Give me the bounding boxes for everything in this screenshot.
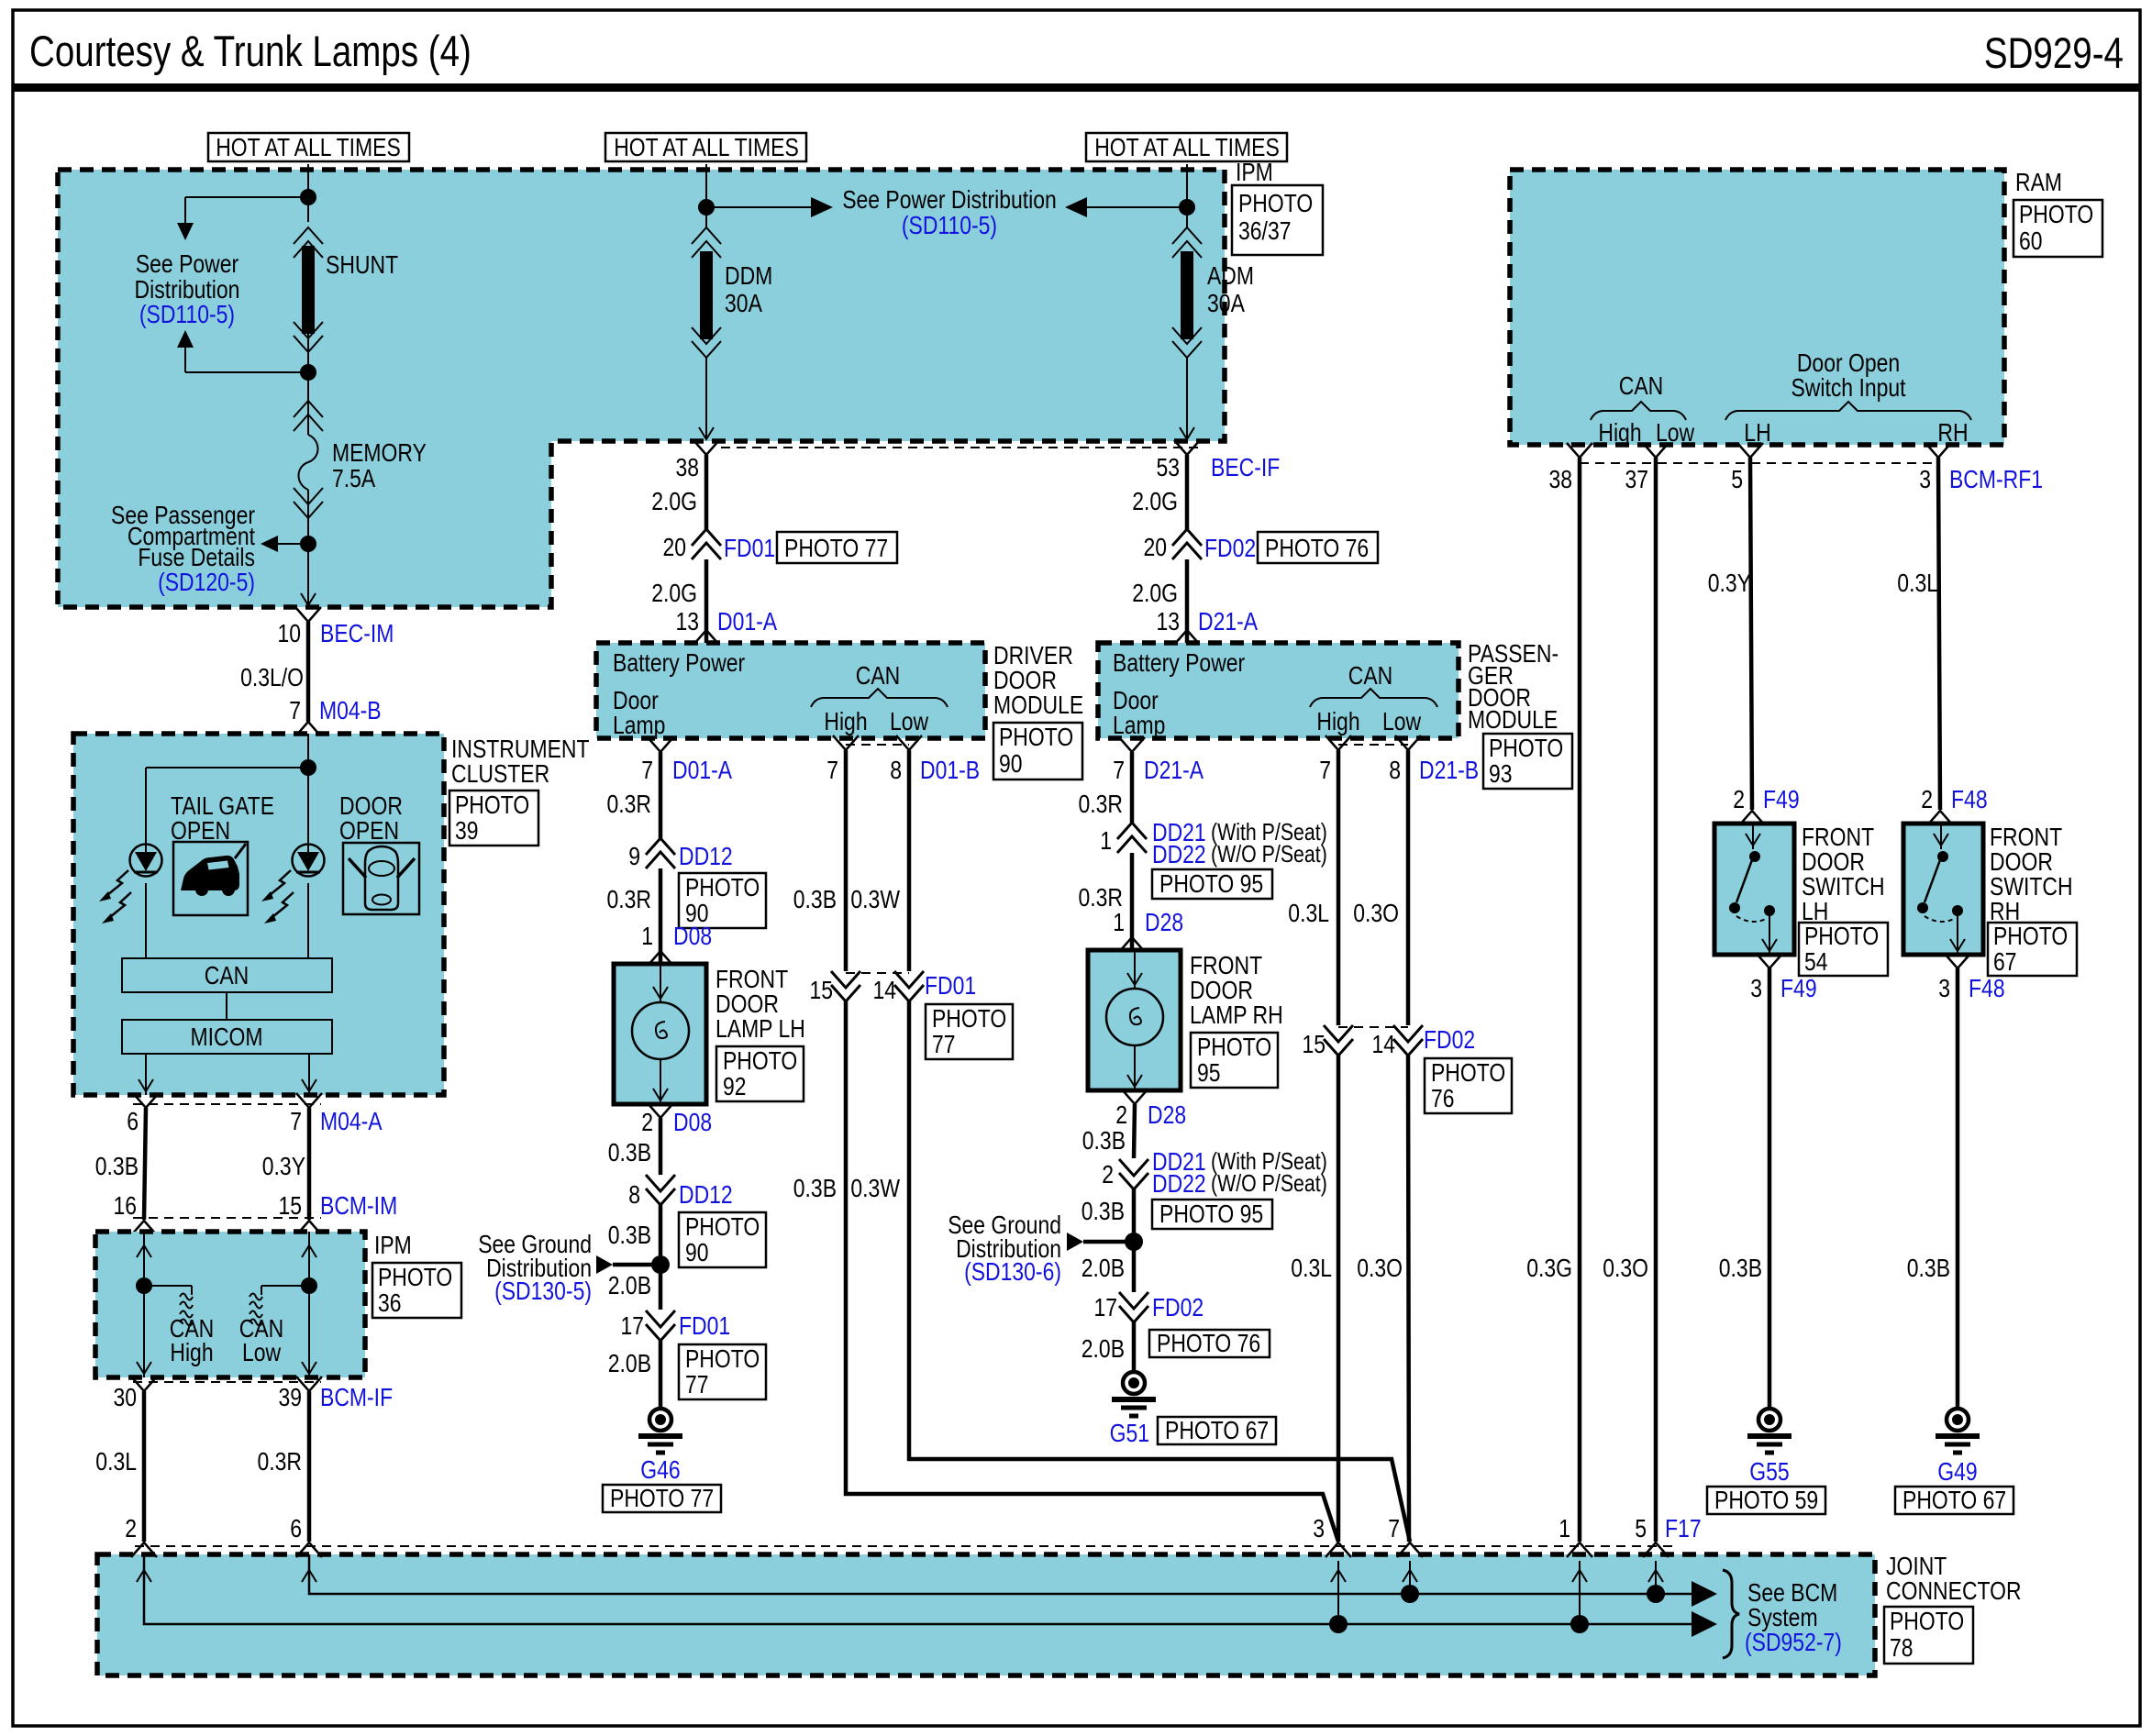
wire CAN High 0.3B down and right to joint pin 3	[793, 1001, 1338, 1542]
label PHOTO 67 box (G51)	[1158, 1416, 1276, 1444]
svg-text:17: 17	[621, 1311, 645, 1340]
svg-text:95: 95	[1197, 1058, 1221, 1087]
wire 0.3B to DD21 pin 2	[1134, 1104, 1135, 1158]
svg-text:16: 16	[114, 1191, 138, 1220]
connector F49 pin 2	[1733, 785, 1799, 825]
svg-text:PHOTO: PHOTO	[455, 791, 529, 819]
svg-text:D21-B: D21-B	[1419, 756, 1479, 784]
svg-text:D28: D28	[1145, 908, 1183, 936]
connector D21-A pin 13	[1157, 607, 1259, 645]
label RAM / PHOTO 60	[2013, 168, 2102, 257]
svg-text:PHOTO: PHOTO	[999, 723, 1073, 751]
svg-text:90: 90	[685, 1238, 709, 1266]
connector DD12 pin 9	[628, 838, 733, 870]
joint pin 3 chevron	[1326, 1542, 1351, 1557]
svg-text:PHOTO 67: PHOTO 67	[1902, 1486, 2006, 1514]
wire 2.0G FD02 to D21-A	[1185, 559, 1190, 643]
svg-text:PHOTO: PHOTO	[1431, 1058, 1505, 1087]
wire 0.3B LH switch to G55	[1768, 968, 1772, 1409]
label IPM PHOTO 36/37	[1232, 158, 1323, 255]
svg-text:BCM-RF1: BCM-RF1	[1949, 465, 2043, 493]
wire: branch to See Passenger Compartment Fuse Details (left arrow)	[261, 536, 308, 552]
svg-text:High: High	[170, 1338, 213, 1366]
svg-text:PHOTO 77: PHOTO 77	[784, 534, 888, 562]
wire CAN Low 0.3W down and right to joint pin 7	[850, 1001, 1410, 1542]
svg-text:(SD952-7): (SD952-7)	[1745, 1628, 1842, 1656]
svg-text:PHOTO: PHOTO	[685, 1212, 760, 1241]
svg-text:14: 14	[1372, 1030, 1396, 1058]
fuse SHUNT	[294, 227, 398, 352]
svg-text:DD22: DD22	[1152, 1169, 1206, 1198]
connector D01-A pin 7 (door lamp out)	[641, 737, 732, 784]
svg-text:BCM-IM: BCM-IM	[320, 1191, 397, 1220]
svg-text:G51: G51	[1110, 1419, 1149, 1447]
svg-text:FD02: FD02	[1152, 1293, 1204, 1321]
node: ground distribution junction (passenger)	[1125, 1233, 1143, 1251]
wire: see ground distribution arrow (driver)	[596, 1255, 660, 1274]
svg-text:Low: Low	[242, 1338, 282, 1366]
svg-text:PHOTO: PHOTO	[378, 1263, 452, 1291]
label FRONT DOOR SWITCH LH / PHOTO 54	[1799, 823, 1888, 976]
svg-text:0.3W: 0.3W	[850, 885, 900, 913]
node: junction on DDM feed	[698, 199, 715, 216]
svg-text:G49: G49	[1937, 1457, 1977, 1486]
wire: from ADM junction to See Power Distribution left arrow	[1065, 197, 1187, 217]
wire 0.3R to DD12	[659, 752, 663, 838]
svg-text:MODULE: MODULE	[993, 691, 1083, 719]
wire: cluster feed and branch	[146, 734, 308, 852]
svg-text:High: High	[824, 707, 867, 735]
HOT AT ALL TIMES box 3	[1086, 133, 1287, 161]
svg-text:PHOTO: PHOTO	[685, 873, 760, 901]
connector BCM-RF1 pins 38/37/5/3	[1549, 443, 2044, 493]
wire: joint bus lower (from pin 2)	[137, 1554, 1717, 1637]
svg-text:PHOTO: PHOTO	[2019, 200, 2093, 228]
node: joint junction pin1/lower	[1570, 1615, 1589, 1633]
LED indicator door open	[293, 845, 325, 877]
svg-text:2: 2	[125, 1514, 137, 1542]
svg-text:77: 77	[685, 1370, 709, 1399]
connector D01-B pins 7/8 (CAN out) + dashed	[826, 735, 980, 784]
svg-text:FD01: FD01	[724, 534, 775, 562]
svg-text:0.3Y: 0.3Y	[262, 1152, 305, 1180]
wire 0.3B M04-A to BCM-IM	[144, 1108, 146, 1220]
svg-text:PHOTO: PHOTO	[932, 1004, 1006, 1033]
svg-text:5: 5	[1731, 465, 1743, 493]
connector D21-B pins 7/8 (CAN out) + dashed	[1319, 735, 1479, 784]
svg-text:PHOTO: PHOTO	[1489, 734, 1563, 762]
svg-text:3: 3	[1919, 465, 1931, 493]
svg-text:0.3L: 0.3L	[1897, 569, 1938, 597]
svg-text:7: 7	[1113, 756, 1125, 784]
wire: see ground distribution arrow (passenger)	[1067, 1233, 1134, 1251]
svg-text:OPEN: OPEN	[339, 816, 399, 845]
svg-text:CAN: CAN	[1348, 661, 1393, 690]
wire 2.0G ADM to FD02	[1185, 455, 1190, 529]
svg-text:3: 3	[1938, 974, 1950, 1002]
label See Passenger Compartment Fuse Details (SD120-5)	[111, 501, 255, 596]
label INSTRUMENT CLUSTER / PHOTO 39	[449, 735, 590, 846]
svg-text:7: 7	[1319, 756, 1331, 784]
ground G51	[1110, 1372, 1156, 1447]
label PHOTO 59 box (G55)	[1707, 1486, 1825, 1514]
svg-text:6: 6	[290, 1514, 302, 1542]
node: junction above SHUNT	[300, 189, 316, 205]
connector D21-A pin 7 (door lamp out)	[1113, 737, 1204, 784]
svg-text:30A: 30A	[725, 289, 762, 317]
connector BCM-IM pins 16/15	[114, 1191, 398, 1235]
connector DD21/DD22 pin 1	[1100, 818, 1327, 868]
svg-text:PHOTO: PHOTO	[1238, 189, 1313, 217]
wire RH switch input 0.3L	[1938, 458, 1940, 810]
connector FD02 pin 20	[1144, 529, 1257, 562]
icon door open (car top view)	[343, 843, 419, 914]
svg-text:CAN: CAN	[856, 661, 901, 690]
svg-text:(W/O P/Seat): (W/O P/Seat)	[1211, 840, 1327, 868]
svg-text:MODULE: MODULE	[1468, 705, 1558, 734]
svg-text:13: 13	[1157, 607, 1181, 636]
svg-text:Low: Low	[1382, 707, 1422, 735]
switch FRONT DOOR SWITCH RH	[1903, 824, 1983, 955]
svg-text:Low: Low	[1656, 418, 1695, 447]
svg-text:8: 8	[1389, 756, 1401, 784]
svg-text:7: 7	[290, 1107, 302, 1135]
module IPM (lower)	[95, 1232, 365, 1377]
svg-text:DD22: DD22	[1152, 840, 1206, 868]
connector FD02 pin 17	[1094, 1292, 1204, 1322]
wire: to See Power Distribution right arrow	[706, 197, 833, 217]
ground G49	[1936, 1409, 1980, 1486]
svg-text:LAMP LH: LAMP LH	[715, 1014, 805, 1043]
connector BEC-IM pin 10	[278, 607, 394, 647]
svg-text:Low: Low	[890, 707, 929, 735]
svg-text:0.3L: 0.3L	[1288, 899, 1329, 927]
svg-text:PHOTO: PHOTO	[1993, 922, 2068, 950]
label PHOTO 90 box (lower)	[679, 1212, 766, 1267]
svg-text:(SD130-5): (SD130-5)	[494, 1277, 592, 1305]
svg-text:7: 7	[1388, 1514, 1400, 1542]
svg-text:See Power: See Power	[136, 249, 238, 278]
label See BCM System (SD952-7)	[1745, 1578, 1842, 1656]
svg-text:0.3O: 0.3O	[1603, 1254, 1648, 1282]
svg-text:Battery Power: Battery Power	[1113, 648, 1245, 677]
wire: branch to See Power Distribution (left, down arrow)	[177, 197, 308, 240]
svg-text:FD01: FD01	[925, 971, 976, 1000]
block MICOM (cluster)	[122, 1020, 332, 1054]
svg-text:LH: LH	[1744, 418, 1770, 447]
svg-text:(W/O P/Seat): (W/O P/Seat)	[1211, 1169, 1327, 1197]
svg-text:PHOTO 76: PHOTO 76	[1265, 534, 1369, 562]
svg-text:93: 93	[1489, 759, 1513, 788]
svg-text:SD929-4: SD929-4	[1984, 28, 2124, 77]
label See Power Distribution (SD110-5) center	[842, 185, 1057, 239]
svg-text:7.5A: 7.5A	[332, 464, 375, 492]
svg-text:HOT AT ALL TIMES: HOT AT ALL TIMES	[216, 133, 401, 161]
wire 2.0G DDM to FD01	[704, 455, 709, 529]
svg-text:2.0B: 2.0B	[608, 1271, 651, 1299]
svg-text:1: 1	[1100, 826, 1112, 855]
connector F48 pin 3	[1938, 954, 2004, 1002]
connector FD01 pin 20	[663, 529, 776, 562]
wire 2.0B to ground G46	[659, 1341, 663, 1409]
label FRONT DOOR LAMP RH / PHOTO 95	[1190, 951, 1283, 1088]
label PASSENGER DOOR MODULE	[1468, 639, 1572, 789]
joint pin 7 chevron	[1397, 1542, 1423, 1557]
connector F49 pin 3	[1750, 954, 1816, 1002]
svg-text:RH: RH	[1937, 418, 1968, 447]
wire: MICOM outputs to M04-A	[139, 1054, 316, 1095]
ground G55	[1747, 1409, 1791, 1486]
svg-text:2: 2	[1102, 1160, 1114, 1189]
node: junction below SHUNT	[300, 364, 316, 381]
connector M04-A pins 6/7	[127, 1093, 383, 1135]
svg-text:PHOTO 95: PHOTO 95	[1159, 1200, 1263, 1228]
svg-text:PHOTO 67: PHOTO 67	[1165, 1416, 1269, 1444]
label IPM / PHOTO 36	[372, 1231, 461, 1318]
svg-text:0.3Y: 0.3Y	[1708, 569, 1751, 597]
wire: ADM down to module edge	[1180, 358, 1194, 439]
svg-text:0.3B: 0.3B	[608, 1138, 651, 1167]
svg-text:PHOTO 59: PHOTO 59	[1714, 1486, 1818, 1514]
svg-text:0.3W: 0.3W	[850, 1174, 900, 1202]
svg-text:15: 15	[279, 1191, 303, 1220]
wire 0.3B to ground junction	[659, 1205, 663, 1265]
svg-text:36: 36	[378, 1288, 402, 1317]
svg-text:2: 2	[1733, 785, 1745, 813]
wire 2.0B to FD01 pin 17	[659, 1265, 663, 1310]
module RAM	[1510, 170, 2004, 447]
connector F48 pin 2	[1921, 785, 1987, 825]
label See Ground Distribution (SD130-5)	[478, 1230, 592, 1305]
svg-text:10: 10	[278, 619, 302, 647]
svg-text:0.3L: 0.3L	[1291, 1254, 1332, 1282]
wire 0.3R BCM-IF to joint pin 6	[307, 1391, 312, 1542]
svg-text:ADM: ADM	[1207, 261, 1254, 290]
module IPM (top power distribution, L-shaped cyan block)	[58, 170, 1225, 607]
svg-text:0.3B: 0.3B	[793, 885, 837, 913]
svg-text:M04-B: M04-B	[319, 696, 382, 724]
svg-text:2.0G: 2.0G	[651, 579, 697, 607]
svg-text:0.3B: 0.3B	[1082, 1126, 1126, 1155]
wire CAN Low 0.3W (driver)	[907, 750, 912, 971]
joint pin 6 chevron	[296, 1542, 322, 1557]
connector DD21/DD22 pin 2	[1102, 1147, 1327, 1198]
svg-text:(SD130-6): (SD130-6)	[964, 1257, 1061, 1286]
svg-text:PHOTO: PHOTO	[1197, 1033, 1271, 1061]
label PHOTO 90 box	[679, 873, 766, 928]
label FRONT DOOR LAMP LH / PHOTO 92	[715, 965, 805, 1101]
joint pin 2 chevron	[131, 1542, 157, 1557]
node: junction on ADM feed	[1179, 199, 1195, 216]
svg-text:2: 2	[1921, 785, 1933, 813]
joint pin labels 3/7/1/5 F17	[1313, 1514, 1701, 1542]
label FRONT DOOR SWITCH RH / PHOTO 67	[1988, 823, 2077, 976]
label PHOTO 77 box (G46)	[603, 1484, 721, 1512]
wire RAM CAN High 0.3G to joint pin 1	[1578, 458, 1582, 1542]
svg-text:PHOTO: PHOTO	[723, 1046, 797, 1075]
label TAIL GATE OPEN	[171, 791, 274, 845]
svg-text:2.0B: 2.0B	[1082, 1254, 1125, 1282]
connector line above joint connector (dashed)	[135, 1545, 1679, 1547]
svg-text:0.3G: 0.3G	[1526, 1254, 1572, 1282]
svg-text:20: 20	[1144, 533, 1168, 561]
node: junction to passenger compartment fuse details	[300, 536, 316, 552]
svg-text:F49: F49	[1780, 974, 1817, 1002]
wire CAN Low 0.3O down to joint pin 7	[1408, 1056, 1409, 1542]
svg-text:D28: D28	[1148, 1100, 1186, 1129]
svg-text:G46: G46	[640, 1455, 680, 1484]
svg-text:5: 5	[1635, 1514, 1647, 1542]
svg-text:D08: D08	[673, 922, 712, 950]
svg-text:See Power Distribution: See Power Distribution	[842, 185, 1057, 214]
svg-text:D01-A: D01-A	[717, 607, 777, 636]
svg-text:39: 39	[279, 1383, 303, 1411]
svg-text:0.3B: 0.3B	[793, 1174, 837, 1202]
svg-text:High: High	[1316, 707, 1359, 735]
wire: LEDs into CAN block	[146, 883, 308, 1020]
label PHOTO 95 box	[1152, 869, 1272, 899]
svg-text:F48: F48	[1951, 785, 1988, 813]
node: ground distribution junction (driver)	[651, 1255, 670, 1274]
module JOINT CONNECTOR	[97, 1554, 1875, 1675]
connector line BEC-IF (dashed)	[721, 447, 1202, 448]
svg-text:67: 67	[1993, 947, 2017, 976]
svg-text:CAN: CAN	[1619, 371, 1664, 400]
svg-text:CONNECTOR: CONNECTOR	[1886, 1576, 2022, 1605]
svg-text:8: 8	[890, 756, 902, 784]
svg-text:53: 53	[1157, 453, 1181, 481]
svg-text:Switch Input: Switch Input	[1791, 373, 1905, 402]
wire: memory down to BEC-IM exit	[307, 490, 309, 605]
joint pin 1 chevron	[1567, 1542, 1592, 1557]
svg-text:0.3O: 0.3O	[1357, 1254, 1403, 1282]
svg-text:D21-A: D21-A	[1198, 607, 1258, 636]
wire arrow exiting module at BEC-IM	[301, 593, 316, 605]
svg-text:BEC-IF: BEC-IF	[1211, 453, 1280, 481]
svg-text:Lamp: Lamp	[1113, 711, 1165, 739]
label PHOTO 77 box (FD01 can)	[926, 1004, 1013, 1059]
svg-text:38: 38	[676, 453, 700, 481]
svg-text:0.3B: 0.3B	[1907, 1254, 1950, 1282]
svg-text:BEC-IM: BEC-IM	[320, 619, 394, 647]
svg-text:76: 76	[1431, 1084, 1455, 1112]
icon tail gate open (minivan)	[173, 842, 248, 915]
node: joint junction pin3/lower	[1329, 1615, 1348, 1633]
svg-text:8: 8	[628, 1180, 640, 1209]
svg-text:PHOTO 77: PHOTO 77	[610, 1484, 714, 1512]
label PHOTO 77 box (lower driver)	[679, 1344, 766, 1399]
svg-text:M04-A: M04-A	[320, 1107, 383, 1135]
connector D08 pin 2	[641, 1103, 712, 1136]
svg-text:90: 90	[999, 749, 1023, 778]
label PHOTO 76 box (FD02 lower)	[1149, 1329, 1270, 1357]
svg-text:20: 20	[663, 533, 687, 561]
wire 2.0G FD01 to D01-A	[704, 559, 709, 643]
wire 0.3Y M04-A to BCM-IM	[307, 1108, 312, 1220]
svg-text:RAM: RAM	[2015, 168, 2062, 196]
svg-text:MICOM: MICOM	[190, 1023, 262, 1051]
ground G46	[638, 1409, 682, 1484]
label See Ground Distribution (SD130-6)	[948, 1211, 1061, 1286]
svg-text:2.0B: 2.0B	[608, 1349, 651, 1377]
node: cluster branch junction	[300, 759, 316, 776]
svg-text:13: 13	[676, 607, 700, 636]
svg-text:78: 78	[1890, 1633, 1914, 1662]
module INSTRUMENT CLUSTER	[73, 734, 444, 1095]
svg-text:14: 14	[873, 976, 897, 1004]
label See Power Distribution (SD110-5) top-left	[135, 249, 240, 328]
svg-text:FD01: FD01	[679, 1311, 730, 1340]
svg-text:30A: 30A	[1207, 289, 1245, 317]
svg-text:0.3B: 0.3B	[1082, 1197, 1125, 1225]
svg-text:BCM-IF: BCM-IF	[320, 1383, 393, 1411]
wire 0.3R to DD21	[1130, 752, 1135, 823]
svg-text:0.3B: 0.3B	[95, 1152, 139, 1180]
svg-text:0.3L/O: 0.3L/O	[240, 663, 304, 691]
svg-text:OPEN: OPEN	[171, 816, 230, 845]
label JOINT CONNECTOR / PHOTO 78	[1884, 1552, 2022, 1664]
wire CAN High 0.3B (driver)	[844, 750, 849, 971]
lamp FRONT DOOR LAMP RH	[1088, 950, 1181, 1090]
svg-text:15: 15	[810, 976, 834, 1004]
LED indicator tail gate	[130, 845, 162, 877]
svg-text:6: 6	[127, 1107, 139, 1135]
wire RAM CAN Low 0.3O to joint pin 5	[1654, 458, 1658, 1542]
title separator bar	[13, 83, 2140, 92]
module PASSENGER DOOR MODULE (battery power box)	[1098, 643, 1459, 739]
svg-text:2.0B: 2.0B	[1082, 1334, 1125, 1363]
wire: DDM down to module edge	[699, 358, 714, 439]
svg-text:PHOTO 76: PHOTO 76	[1157, 1329, 1260, 1357]
connector FD02 pins 15/14	[1303, 1025, 1476, 1058]
svg-text:DD12: DD12	[679, 842, 733, 870]
svg-text:DDM: DDM	[725, 261, 772, 290]
connector FD01 pin 17	[621, 1310, 731, 1341]
svg-text:60: 60	[2019, 227, 2043, 255]
HOT AT ALL TIMES box 2	[605, 133, 806, 161]
svg-text:7: 7	[289, 696, 301, 724]
connector DD12 pin 8	[628, 1175, 733, 1209]
svg-text:DD12: DD12	[679, 1180, 733, 1209]
svg-text:LAMP RH: LAMP RH	[1190, 1001, 1283, 1029]
connector BCM-IF pins 30/39	[114, 1377, 394, 1411]
svg-text:3: 3	[1750, 974, 1762, 1002]
label PHOTO 76 box (FD02 can)	[1425, 1058, 1512, 1113]
label DRIVER DOOR MODULE	[993, 641, 1083, 780]
svg-text:2.0G: 2.0G	[651, 487, 697, 515]
block CAN (cluster)	[122, 958, 332, 992]
svg-text:0.3B: 0.3B	[1719, 1254, 1762, 1282]
svg-text:2.0G: 2.0G	[1132, 487, 1178, 515]
connector BEC-IF pin 53 exit chevron	[1174, 440, 1200, 455]
svg-text:CLUSTER: CLUSTER	[451, 759, 549, 788]
wire: joint bus upper (from pin 6)	[302, 1554, 1717, 1607]
svg-text:38: 38	[1549, 465, 1573, 493]
svg-text:0.3R: 0.3R	[258, 1447, 303, 1476]
svg-text:D01-B: D01-B	[920, 756, 980, 784]
svg-text:(SD120-5): (SD120-5)	[158, 568, 255, 596]
wire 0.3B to ground junction (passenger)	[1132, 1189, 1137, 1242]
svg-text:F48: F48	[1969, 974, 2005, 1002]
svg-text:Battery Power: Battery Power	[613, 648, 745, 677]
fuse ADM 30A	[1172, 227, 1254, 358]
svg-text:39: 39	[455, 816, 479, 845]
svg-text:0.3B: 0.3B	[608, 1221, 651, 1249]
svg-text:0.3O: 0.3O	[1353, 899, 1399, 927]
svg-text:F17: F17	[1665, 1514, 1702, 1542]
svg-text:FD02: FD02	[1204, 534, 1256, 562]
fuse DDM 30A	[692, 227, 772, 358]
